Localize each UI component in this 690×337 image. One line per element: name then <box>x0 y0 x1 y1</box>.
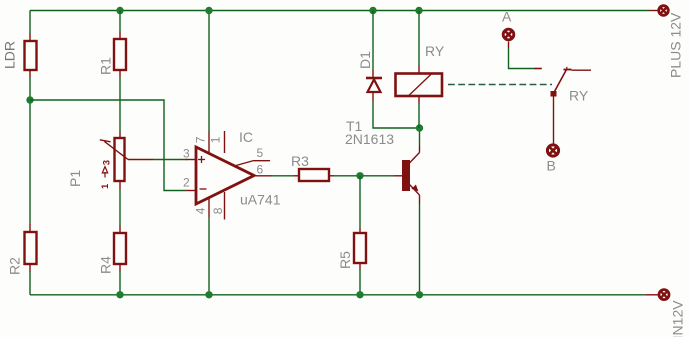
wire relay coil to node <box>418 104 420 128</box>
svg-text:R4: R4 <box>98 256 114 274</box>
wire divider node to inverting input <box>30 100 186 191</box>
node junction top rail pin7 <box>205 7 212 14</box>
svg-text:5: 5 <box>257 146 264 160</box>
wire R3 to base node <box>334 175 394 177</box>
svg-text:uA741: uA741 <box>240 192 281 208</box>
svg-text:8: 8 <box>211 207 225 214</box>
svg-text:3: 3 <box>183 147 190 161</box>
transistor T1 2N1613 <box>394 146 420 204</box>
wire lamp A to switch contact <box>509 48 536 69</box>
wire V+ rail to pin 7 <box>208 11 210 132</box>
svg-text:IC: IC <box>239 129 253 145</box>
lamp B <box>547 145 558 156</box>
diode D1 <box>366 70 382 101</box>
wire R5 to bottom rail <box>359 270 361 295</box>
wire LDR to R2 <box>29 78 31 224</box>
wire switch common to lamp B <box>553 97 555 144</box>
lamp A <box>503 29 514 48</box>
svg-text:R2: R2 <box>7 257 23 275</box>
wire node to R5 <box>359 176 361 228</box>
terminal PLUS 12V <box>650 6 668 16</box>
svg-text:1: 1 <box>209 136 223 143</box>
svg-text:3: 3 <box>101 160 112 165</box>
wire R1 to P1 <box>119 78 121 131</box>
svg-text:R1: R1 <box>98 57 114 75</box>
svg-text:7: 7 <box>194 136 208 143</box>
node junction coil/collector <box>416 124 423 131</box>
wire top rail to relay coil <box>418 11 420 66</box>
svg-text:2N1613: 2N1613 <box>345 131 394 147</box>
svg-text:D1: D1 <box>357 51 373 69</box>
svg-text:1: 1 <box>100 183 111 189</box>
wire top rail to D1 <box>372 11 374 71</box>
svg-text:P1: P1 <box>67 170 83 187</box>
node junction bottom rail pin4 <box>205 291 212 298</box>
svg-text:B: B <box>547 158 556 174</box>
svg-text:MIN12V: MIN12V <box>670 300 686 337</box>
mechanical link dashed <box>448 84 552 86</box>
svg-text:2: 2 <box>183 176 190 190</box>
wire D1 to coil node <box>373 101 420 128</box>
wire R2 to bottom rail <box>29 272 31 295</box>
svg-text:RY: RY <box>425 43 445 59</box>
node junction top rail D1 <box>369 7 376 14</box>
relay switch RY <box>535 67 592 97</box>
op-amp IC uA741 <box>186 131 272 220</box>
resistor LDR <box>25 33 37 78</box>
node junction R5 bottom rail <box>356 291 363 298</box>
resistor R2 <box>25 224 37 272</box>
wire op-amp output to R3 <box>272 175 294 177</box>
relay coil RY <box>396 65 443 104</box>
resistor R3 <box>294 169 334 181</box>
wire P1 to R4 <box>119 189 121 225</box>
wire R4 to bottom rail <box>119 272 121 295</box>
wire P1 wiper to non-inverting input <box>153 159 187 161</box>
wire emitter to bottom rail <box>419 204 421 295</box>
wire bottom rail <box>30 294 646 296</box>
node junction LDR/R1 divider <box>26 96 33 103</box>
svg-text:4: 4 <box>194 207 208 214</box>
wire top rail <box>30 10 650 12</box>
wire top rail to R1 <box>119 11 121 32</box>
wire pin 4 to bottom rail <box>208 217 210 295</box>
node junction top rail relay <box>415 7 422 14</box>
svg-text:R3: R3 <box>291 153 309 169</box>
svg-text:LDR: LDR <box>2 41 18 69</box>
resistor R1 <box>114 31 126 78</box>
svg-text:A: A <box>502 9 512 25</box>
wire collector to coil node <box>419 128 421 146</box>
node junction R4 bottom rail <box>116 291 123 298</box>
resistor R4 <box>114 225 126 272</box>
potentiometer P1 <box>100 131 153 189</box>
svg-text:6: 6 <box>257 163 264 177</box>
terminal MIN 12V <box>646 290 669 300</box>
wire left vertical (LDR branch) <box>29 11 31 34</box>
resistor R5 <box>354 228 366 270</box>
node junction emitter bottom rail <box>416 291 423 298</box>
node junction base/R5 <box>356 172 363 179</box>
svg-text:PLUS 12V: PLUS 12V <box>668 12 684 78</box>
svg-text:R5: R5 <box>337 251 353 269</box>
svg-text:RY: RY <box>569 88 589 104</box>
node junction top rail R1 <box>116 7 123 14</box>
